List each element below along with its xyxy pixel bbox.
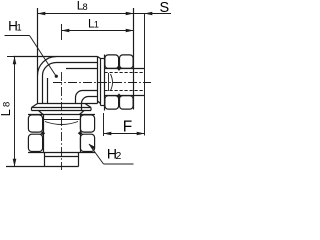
svg-text:1: 1	[94, 20, 99, 30]
svg-text:S: S	[160, 0, 170, 16]
svg-text:2: 2	[116, 150, 122, 162]
svg-text:8: 8	[83, 2, 88, 12]
svg-text:F: F	[123, 118, 132, 135]
svg-text:1: 1	[17, 23, 22, 33]
svg-text:L: L	[0, 109, 13, 116]
svg-text:8: 8	[2, 102, 13, 107]
